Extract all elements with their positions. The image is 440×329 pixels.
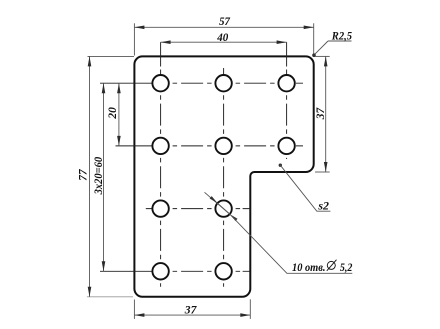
svg-text:37: 37: [184, 303, 198, 317]
radius R2,5 dot: [312, 53, 316, 57]
hole H1: [152, 75, 168, 91]
leader 10 holes: through-hole segment: [205, 192, 230, 214]
svg-text:3x20=60: 3x20=60: [91, 157, 105, 195]
dimension 77 line: [89, 56, 91, 296]
hole H2: [215, 75, 231, 91]
centerline column 3: [286, 42, 288, 159]
svg-text:20: 20: [105, 107, 119, 119]
svg-text:10 отв.: 10 отв.: [292, 260, 326, 274]
leader 10 holes arrowhead lower: [230, 214, 238, 221]
dimension 57 extension lines: [134, 23, 313, 55]
centerline row 3: [146, 208, 251, 210]
dimension 40 line: [161, 41, 287, 43]
dimension 3x20=60 line: [103, 83, 105, 271]
radius R2,5 leader: [314, 41, 351, 55]
hole H9: [152, 263, 168, 279]
hole H5: [215, 138, 231, 154]
center mark H8 (leader passes through): [218, 203, 230, 214]
dimension 37 bottom line: [134, 314, 250, 316]
centerline column 2: [223, 68, 225, 287]
hole H3: [278, 75, 294, 91]
centerline row 1: [100, 82, 303, 84]
hole H4: [152, 138, 168, 154]
dimension 37 bottom extension lines: [134, 299, 250, 319]
svg-text:R2,5: R2,5: [331, 28, 352, 42]
svg-text:57: 57: [219, 14, 231, 28]
svg-text:5,2: 5,2: [340, 260, 353, 274]
thickness s2 leader: [280, 165, 330, 211]
svg-text:s2: s2: [317, 198, 329, 212]
dimension 37 right line: [325, 56, 327, 172]
svg-text:37: 37: [313, 107, 327, 120]
thickness s2 dot: [279, 164, 282, 167]
dimension 77 extension lines: [87, 56, 134, 296]
hole H7: [152, 200, 168, 216]
hole H10: [215, 263, 231, 279]
leader 10 holes arrowhead upper: [210, 196, 218, 203]
centerline column 1: [160, 42, 162, 287]
hole H8: [215, 200, 231, 216]
plate outline: [134, 56, 313, 296]
diameter symbol: [327, 260, 337, 271]
hole H6: [278, 138, 294, 154]
centerline row 4: [100, 270, 250, 272]
dimension 20 line: [118, 83, 120, 146]
svg-text:77: 77: [75, 168, 89, 181]
dimension 37 right extension lines: [315, 56, 330, 172]
svg-text:40: 40: [216, 30, 228, 44]
centerline row 2: [116, 145, 304, 147]
dimension 57 line: [134, 26, 313, 28]
leader 10 holes tail and shelf: [230, 214, 353, 273]
